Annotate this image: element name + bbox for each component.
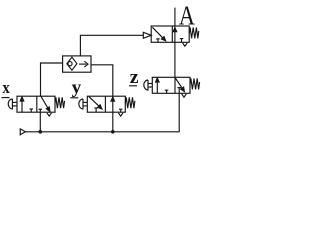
valve y body (87, 96, 125, 112)
shuttle valve ball (68, 62, 72, 66)
shuttle valve body (63, 56, 91, 72)
shuttle valve seat diamond (67, 57, 77, 70)
wire: shuttle output up and right to valve A pilot (80, 35, 143, 56)
valve x exhaust path diagonal (41, 96, 50, 111)
valve y exhaust vent triangle (118, 113, 123, 116)
valve A pilot triangle (143, 32, 151, 38)
valve z exhaust vent triangle (182, 94, 187, 97)
valve y return spring (125, 97, 135, 108)
valve x flow arrow (left cell) (20, 97, 24, 112)
label y underline (70, 97, 78, 99)
valve z blocked port T (left cell) (165, 90, 169, 93)
wire: valve x inlet down to supply rail (39, 112, 41, 132)
label z underline (129, 85, 137, 87)
valve y exhaust path diagonal (left cell) (89, 97, 102, 109)
valve z divider / port column (174, 77, 176, 93)
valve z flow arrow (left cell) (156, 78, 160, 93)
wire: valve x output up to shuttle left input (41, 63, 63, 96)
valve x blocked port T (right cell) (39, 109, 43, 112)
label x underline (2, 97, 10, 99)
wire: valve A output up to label A / inlet down to valve z output (174, 8, 176, 78)
valve y blocked port T (right cell) (119, 109, 122, 112)
valve z return spring (190, 79, 200, 90)
valve A body (151, 26, 189, 42)
valve y blocked port T (left cell) (94, 108, 98, 112)
valve A exhaust vent triangle (183, 43, 188, 46)
valve z blocked port T (right cell) (177, 88, 181, 94)
compressed air source (20, 129, 25, 135)
wire: valve y passage / inlet down to supply rail (112, 96, 114, 132)
junction at valve x inlet (39, 130, 43, 134)
junction at valve y inlet (111, 130, 115, 134)
valve z body (152, 77, 190, 93)
wire: supply rail (25, 93, 179, 132)
valve A flow arrow head (right cell) (173, 28, 177, 32)
svg-text:A: A (179, 0, 195, 30)
valve A exhaust path diagonal (left cell) (152, 27, 165, 40)
svg-text:z: z (130, 68, 139, 88)
valve A return spring (189, 27, 199, 38)
valve z push button (144, 80, 153, 90)
valve x exhaust vent triangle (47, 113, 52, 116)
valve x body (17, 96, 55, 112)
shuttle valve flow arrow (79, 61, 88, 67)
valve A blocked port T (left cell) (156, 39, 160, 42)
valve x push button (8, 99, 17, 109)
svg-text:y: y (72, 77, 82, 97)
valve z exhaust path diagonal (175, 78, 184, 92)
valve y push button (79, 99, 88, 109)
svg-text:x: x (2, 78, 10, 97)
valve x return spring (55, 97, 65, 108)
wire: shuttle right input to valve y output (91, 65, 113, 96)
valve A blocked port T (right cell) (180, 39, 184, 43)
valve y flow arrow head (right cell) (111, 97, 115, 101)
valve x blocked port T (left cell) (30, 109, 34, 112)
